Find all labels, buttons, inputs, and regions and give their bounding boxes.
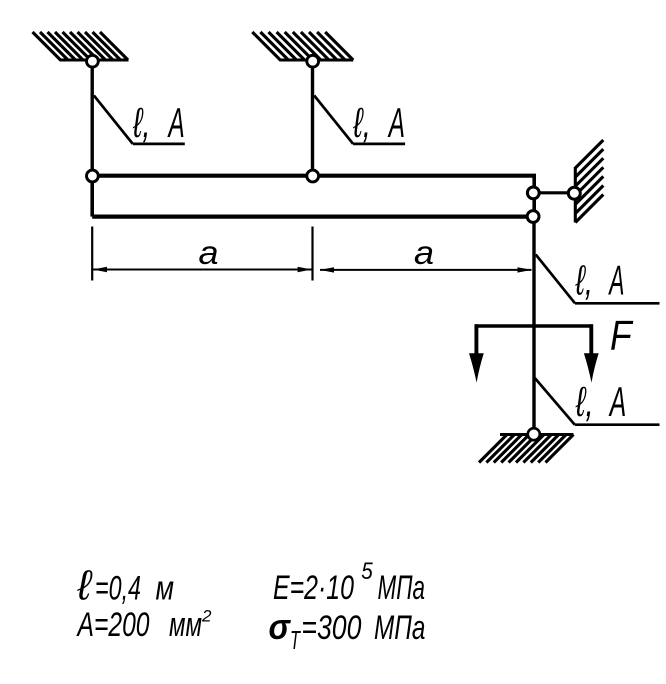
svg-text:a: a	[199, 234, 219, 271]
dimension extension line 2	[311, 227, 313, 281]
svg-text:=300: =300	[301, 609, 361, 647]
svg-text:мм: мм	[169, 606, 202, 644]
pin D (beam middle)	[307, 170, 319, 182]
pin C (beam left)	[87, 170, 99, 182]
dimension extension line 1	[91, 227, 93, 281]
fixed support S1 (top-left ceiling)	[33, 32, 129, 60]
svg-text:σ: σ	[269, 606, 292, 647]
beam right-end vertical link	[532, 176, 536, 217]
svg-text:A: A	[608, 257, 625, 304]
dimension line a2	[320, 269, 532, 271]
svg-text:МПа: МПа	[378, 569, 426, 607]
rod 3 (right lower vertical rod)	[532, 217, 535, 434]
svg-text:E=2·10: E=2·10	[273, 569, 354, 607]
svg-text:м: м	[156, 570, 175, 608]
svg-text:F: F	[610, 312, 634, 359]
force arrow right	[589, 324, 593, 358]
rod 1 (left vertical rod)	[90, 61, 93, 176]
svg-text:A: A	[167, 99, 185, 146]
svg-text:МПа: МПа	[374, 609, 425, 647]
svg-text:2: 2	[201, 607, 212, 626]
svg-text:A=200: A=200	[76, 606, 150, 644]
svg-text:ℓ,: ℓ,	[132, 99, 150, 146]
fixed support S4 (bottom floor)	[479, 435, 574, 463]
force bar	[475, 324, 594, 328]
pin B (top-middle)	[307, 55, 319, 67]
leader 3 (rod 3 upper callout)	[536, 255, 660, 304]
pin E1 (beam right upper)	[527, 187, 539, 199]
svg-text:T: T	[290, 625, 301, 655]
fixed support S2 (top-middle ceiling)	[252, 32, 353, 60]
pin E2 (beam right lower)	[527, 211, 539, 223]
force arrow left	[474, 324, 478, 358]
svg-text:ℓ,: ℓ,	[575, 257, 593, 304]
leader 4 (rod 3 lower callout)	[535, 378, 660, 425]
pin A (top-left)	[87, 55, 99, 67]
rigid beam bottom line	[92, 215, 533, 219]
svg-text:A: A	[608, 378, 626, 425]
svg-text:ℓ,: ℓ,	[575, 378, 594, 425]
svg-text:ℓ,: ℓ,	[353, 99, 371, 146]
leader 1 (rod 1 callout)	[94, 96, 185, 144]
svg-text:5: 5	[361, 558, 373, 585]
rod 2 (middle vertical rod)	[311, 61, 314, 176]
pin W (wall)	[568, 187, 580, 199]
dimension line a1	[93, 269, 312, 271]
svg-text:A: A	[387, 99, 405, 146]
rigid beam top line	[92, 174, 536, 178]
leader 2 (rod 2 callout)	[314, 96, 405, 144]
rigid beam left edge	[90, 176, 94, 217]
svg-text:ℓ: ℓ	[77, 562, 94, 609]
svg-text:a: a	[414, 234, 434, 271]
wall support S3 (right)	[575, 140, 603, 223]
pin G (bottom)	[528, 428, 540, 440]
link to wall pin	[534, 191, 574, 194]
svg-text:=0,4: =0,4	[95, 570, 141, 608]
